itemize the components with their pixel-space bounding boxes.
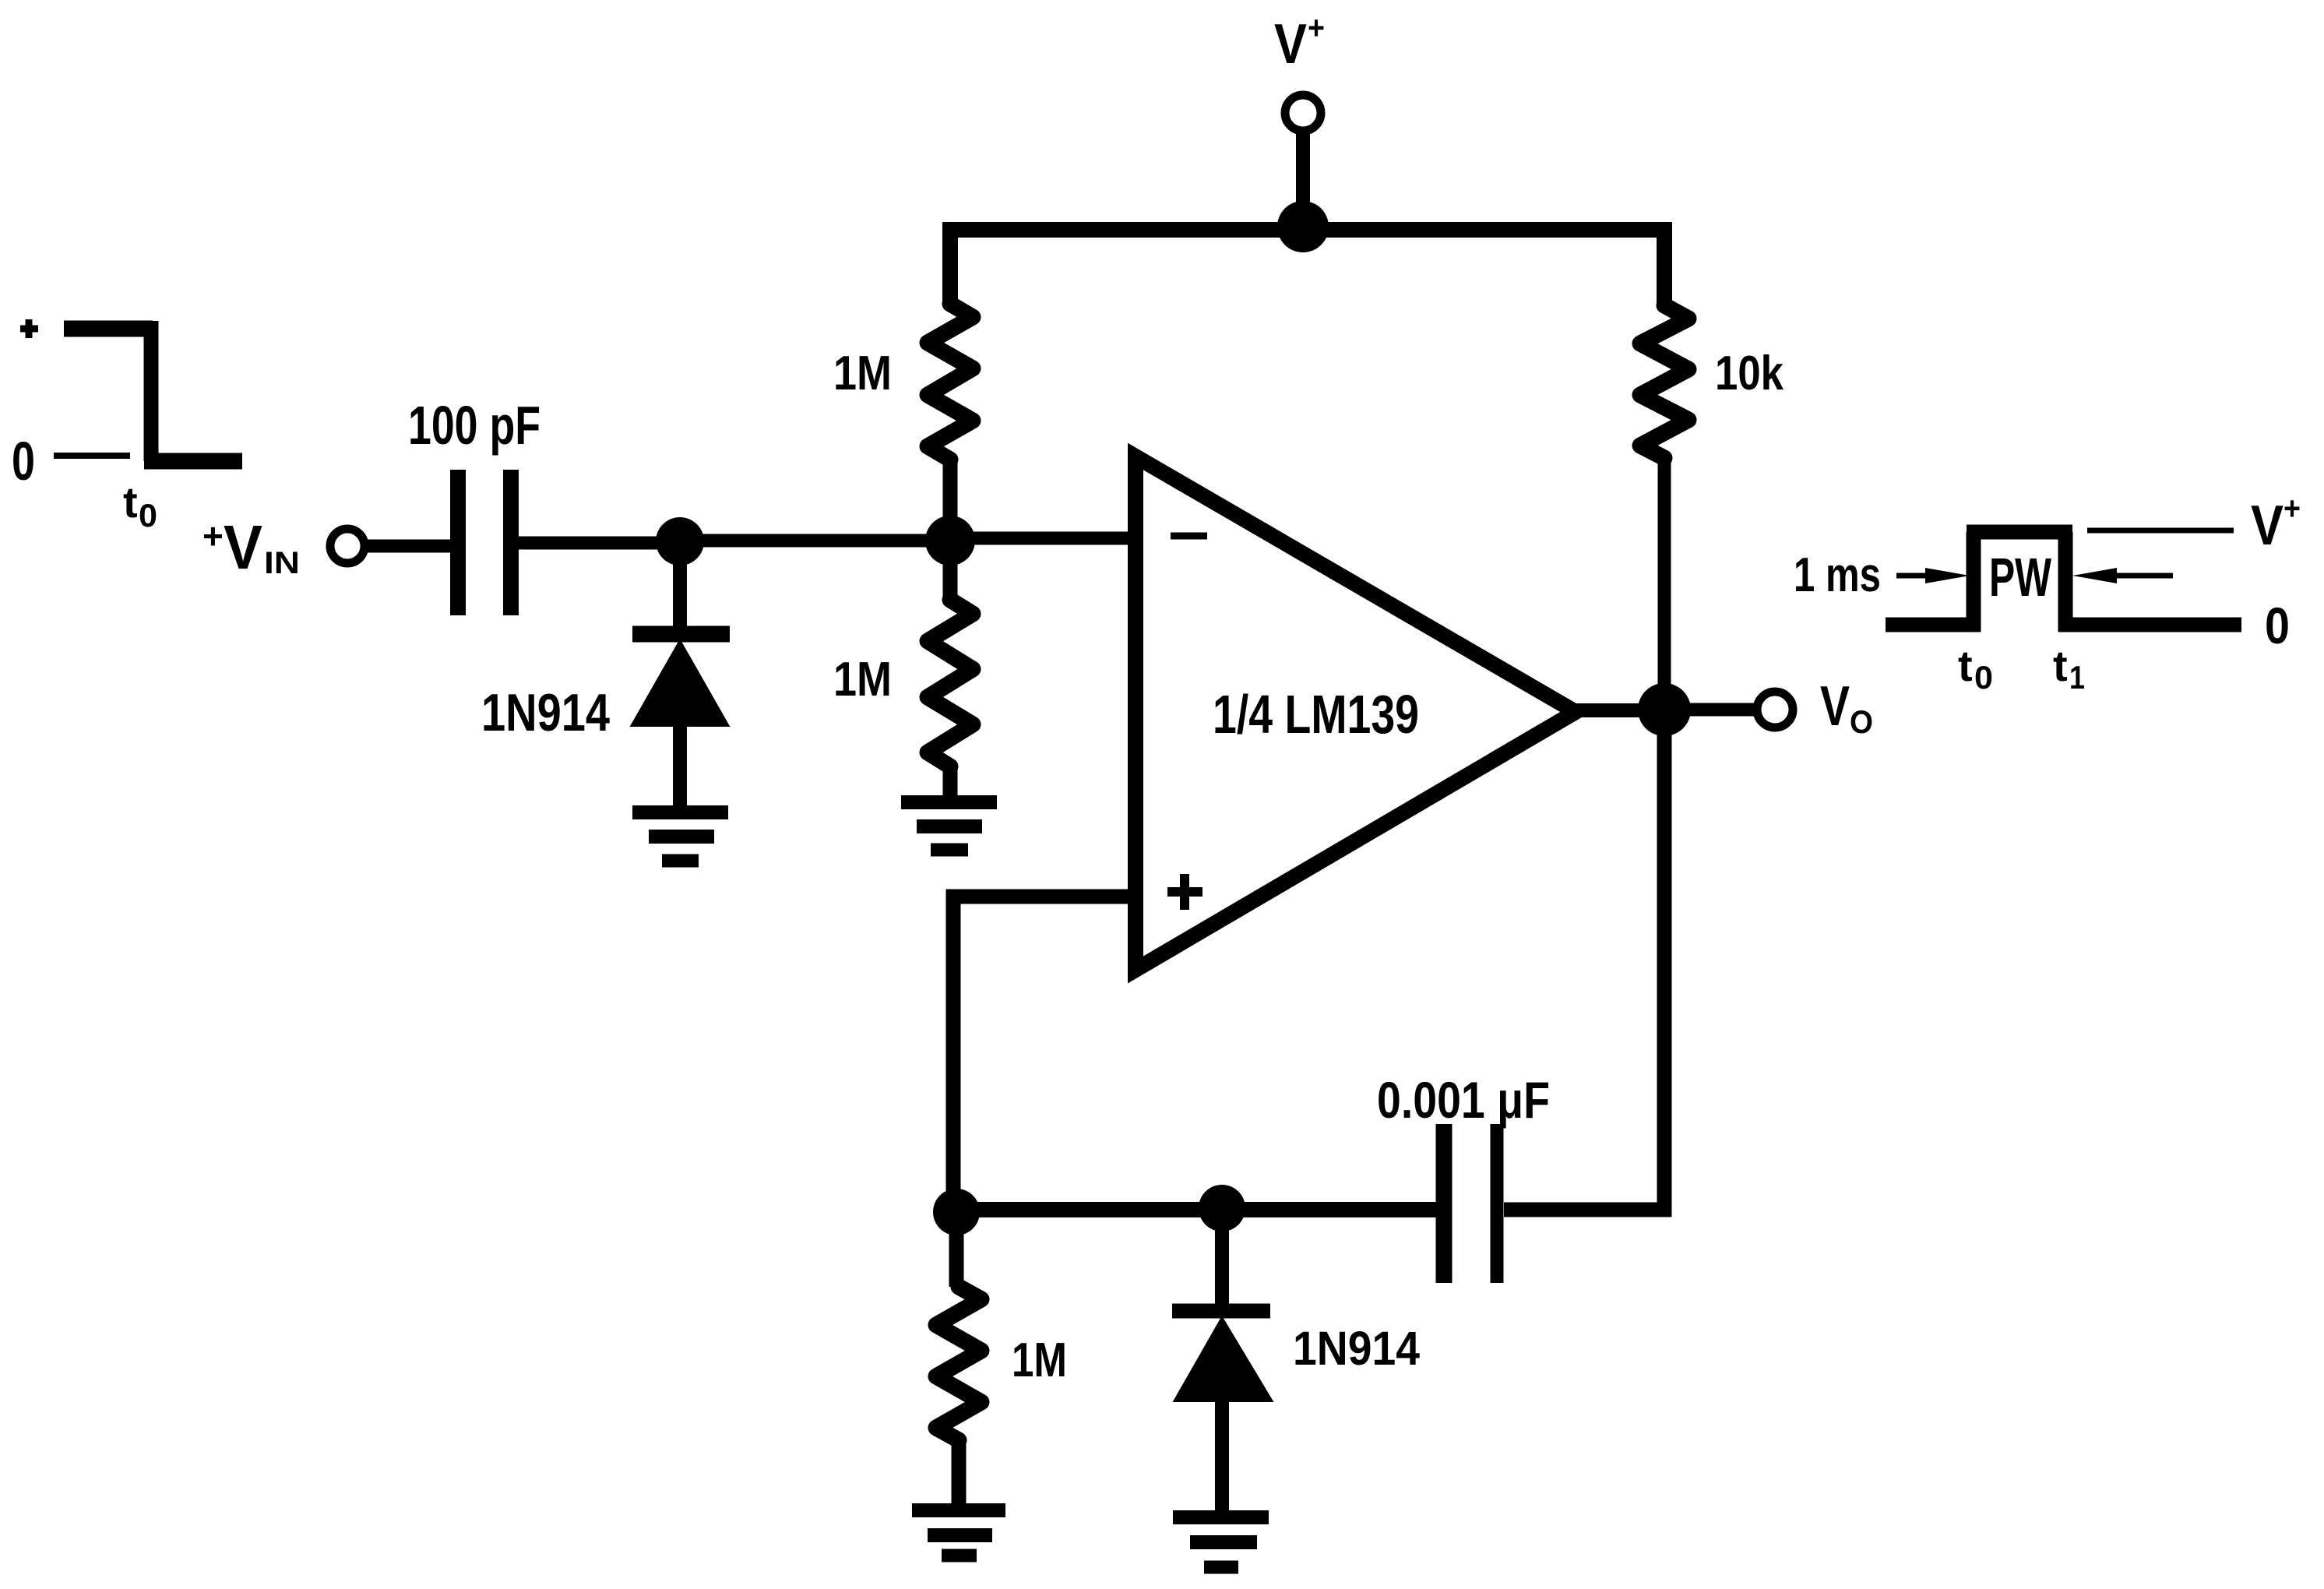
wire node E to VO terminal xyxy=(1664,703,1755,717)
wire node B to comparator inverting input xyxy=(950,532,1137,545)
svg-text:0.001 μF: 0.001 μF xyxy=(1377,1071,1550,1129)
wire 10k to output node xyxy=(1658,458,1671,710)
svg-text:V: V xyxy=(2251,495,2284,557)
svg-text:0: 0 xyxy=(139,497,157,534)
right width arrow xyxy=(2114,573,2173,579)
input terminal +VIN xyxy=(330,529,364,563)
diode D1 1N914 xyxy=(632,541,730,807)
svg-text:t: t xyxy=(123,477,138,527)
svg-text:+: + xyxy=(2284,490,2301,527)
ground below D2 xyxy=(1173,1517,1269,1567)
node A junction dot xyxy=(656,517,704,565)
resistor R4 1M (node C to ground) xyxy=(936,1212,981,1505)
ground below R4 xyxy=(912,1510,1005,1556)
svg-text:+: + xyxy=(1308,9,1325,46)
V+ terminal circle xyxy=(1285,95,1321,131)
ground below D1 xyxy=(632,812,728,861)
resistor R2 1M (node B to ground) xyxy=(928,541,973,798)
wire capacitor C1 to node A xyxy=(519,537,685,550)
resistor R3 10k xyxy=(1640,305,1688,458)
V+ reference line xyxy=(2087,528,2234,534)
svg-text:0: 0 xyxy=(12,431,35,491)
left width arrow xyxy=(1896,573,1935,579)
resistor R1 1M (top, from supply bus to node B) xyxy=(928,304,973,541)
ground below R2 xyxy=(901,802,997,850)
svg-text:0: 0 xyxy=(1974,659,1993,696)
output pulse waveform xyxy=(1886,532,2241,632)
svg-text:0: 0 xyxy=(2265,597,2290,654)
svg-text:1/4 LM139: 1/4 LM139 xyxy=(1213,684,1419,745)
wire C2 to output riser and up to output node xyxy=(1504,710,1664,1210)
op-amp U1 1/4 LM139 comparator triangle xyxy=(1136,456,1576,970)
svg-text:IN: IN xyxy=(264,546,300,580)
svg-text:O: O xyxy=(1850,703,1873,740)
wire input terminal to capacitor C1 xyxy=(364,540,451,553)
svg-text:1: 1 xyxy=(2069,659,2085,696)
VO terminal circle xyxy=(1757,692,1793,728)
wire noninverting input (left from triangle then down) xyxy=(953,897,1137,1212)
svg-text:100 pF: 100 pF xyxy=(408,395,541,456)
diode D2 1N914 xyxy=(1172,1210,1271,1512)
node E output junction dot xyxy=(1638,683,1691,736)
svg-text:1 ms: 1 ms xyxy=(1794,548,1881,602)
wire comparator output to node E xyxy=(1576,703,1664,717)
wire node D to capacitor C2 xyxy=(1222,1202,1437,1217)
svg-text:1M: 1M xyxy=(833,347,892,400)
wire V+ terminal to bus xyxy=(1296,131,1310,226)
junction dot on supply bus xyxy=(1277,201,1329,252)
node C junction dot xyxy=(933,1189,980,1235)
wire node C to node D xyxy=(956,1202,1222,1217)
capacitor C2 0.001 uF xyxy=(1444,1124,1497,1283)
svg-text:t: t xyxy=(2053,641,2068,690)
svg-text:10k: 10k xyxy=(1715,347,1783,400)
svg-text:1M: 1M xyxy=(1012,1334,1067,1387)
svg-text:PW: PW xyxy=(1989,547,2051,608)
node D junction dot xyxy=(1199,1185,1245,1231)
svg-text:+: + xyxy=(202,516,224,556)
input step waveform xyxy=(20,319,242,461)
top supply bus wire xyxy=(950,230,1664,305)
wire node A to node B xyxy=(680,534,954,548)
node B junction dot (inverting input node) xyxy=(925,516,975,565)
svg-text:V: V xyxy=(224,513,262,582)
capacitor C1 100 pF xyxy=(458,470,511,615)
svg-text:1N914: 1N914 xyxy=(1293,1322,1420,1375)
svg-text:V: V xyxy=(1274,13,1307,76)
svg-text:1N914: 1N914 xyxy=(481,683,610,742)
svg-text:V: V xyxy=(1820,675,1850,738)
svg-text:1M: 1M xyxy=(833,653,892,706)
plus input symbol xyxy=(1167,874,1202,910)
minus input symbol xyxy=(1171,533,1207,540)
svg-text:t: t xyxy=(1958,641,1973,690)
